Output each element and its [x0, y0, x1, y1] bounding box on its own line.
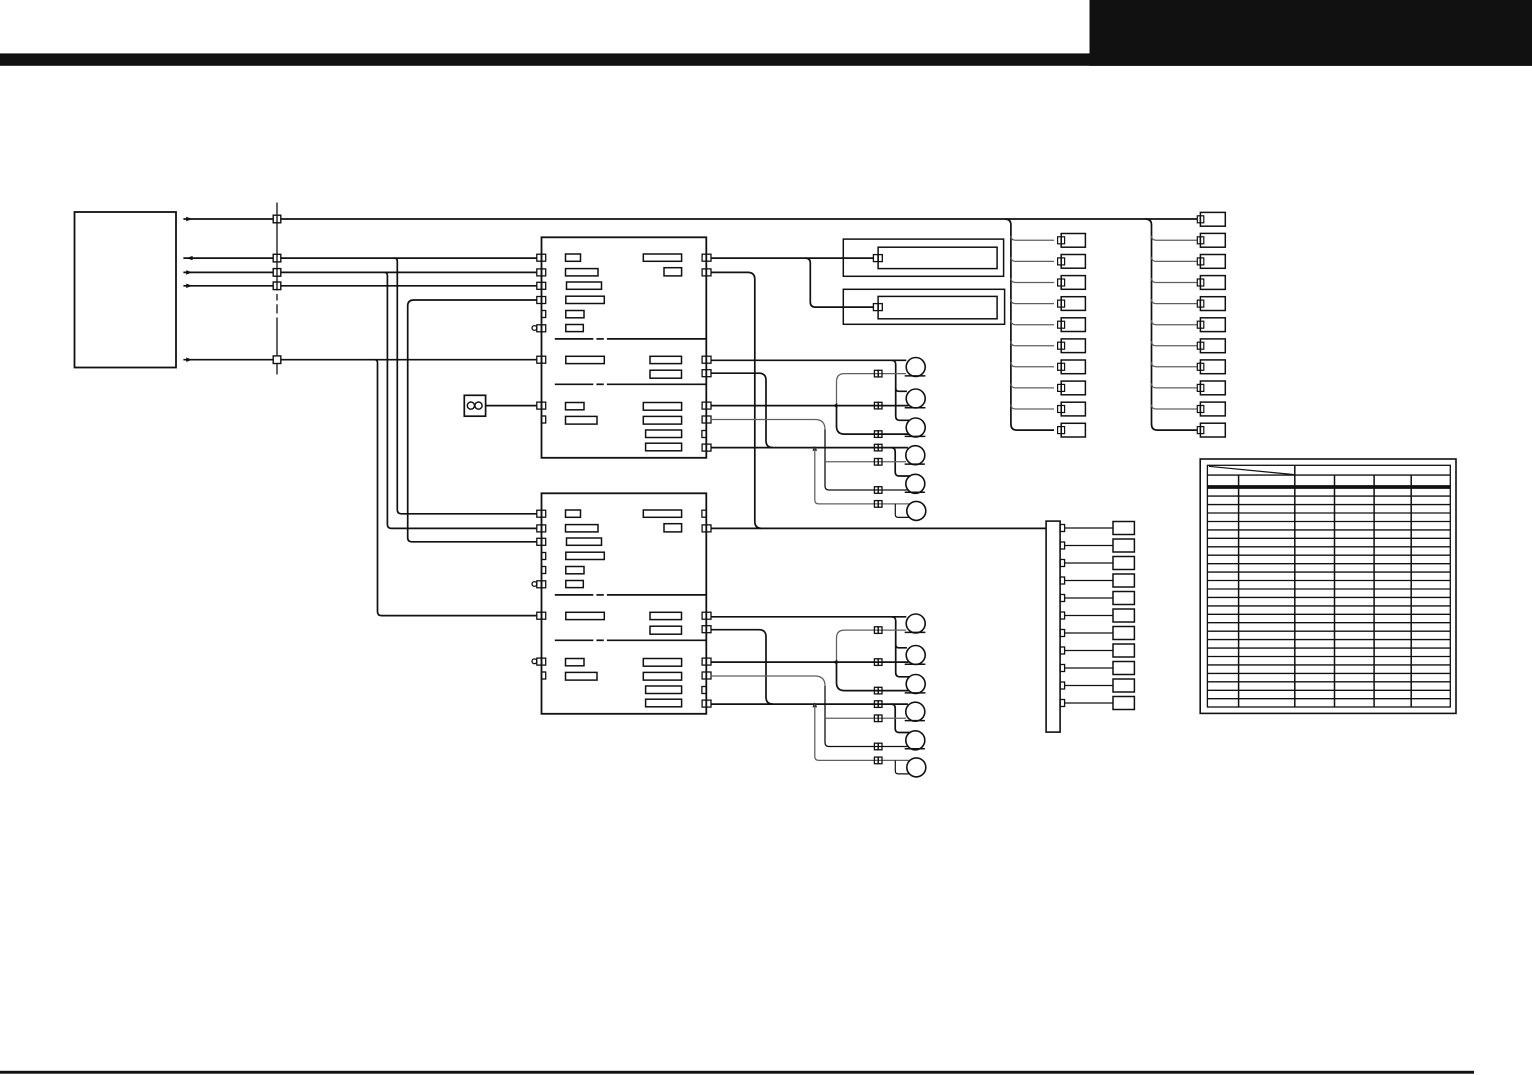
left column connector box 6	[1061, 339, 1085, 353]
CN3 wire 10	[1065, 685, 1113, 687]
left column tap wire 3	[1011, 278, 1054, 283]
return wire lamp4 (gray)	[825, 717, 906, 719]
CN3 pin 11	[1060, 700, 1065, 707]
feed branch to lamp6 (gray)	[815, 704, 910, 760]
lamp L11	[906, 731, 925, 750]
IC602 section divider 1	[555, 594, 594, 596]
junction square J3	[273, 269, 281, 277]
left column connector box 9	[1061, 402, 1085, 416]
junction square J5	[273, 356, 281, 364]
wire V3 (W2 branch to IC2 pin1)	[394, 258, 537, 514]
CN3 pin 8	[1060, 647, 1065, 654]
title block (solid)	[1090, 0, 1532, 66]
CN3 pin 4	[1060, 577, 1065, 584]
table header line 1	[1207, 474, 1450, 476]
lamp L10	[906, 702, 925, 721]
return wire lamp2	[711, 661, 909, 663]
lamp L5	[906, 474, 925, 493]
wire W2	[183, 257, 536, 259]
lamp base bar	[905, 720, 925, 722]
parts table outer frame	[1200, 459, 1456, 713]
CN3 pin 5	[1060, 595, 1065, 602]
feed drop with stubs (lamps 7,8)	[892, 617, 910, 677]
display module DISP2 outer	[843, 289, 1004, 324]
connector plug CN60	[874, 627, 878, 634]
right column tap wire 4	[1152, 299, 1197, 304]
IC602 left pins	[532, 510, 546, 679]
CN3 terminal box 7	[1113, 627, 1134, 640]
CN3 pin 1	[1060, 525, 1065, 532]
wire IC601 pin to main harness	[711, 272, 762, 528]
connector plug CN66	[874, 757, 878, 764]
IC602 section divider 2	[555, 639, 594, 641]
right column tap wire 6	[1152, 341, 1197, 346]
wire W4	[183, 285, 536, 287]
lamp base bar	[905, 463, 925, 465]
arrow W4	[186, 284, 192, 288]
connector plug CN00	[874, 370, 878, 377]
CN3 terminal box 6	[1113, 609, 1134, 622]
right column tap wire 7	[1152, 362, 1197, 367]
left column connector box 2	[1061, 255, 1085, 269]
right column bus vertical	[1146, 219, 1197, 430]
CN3 wire 3	[1065, 562, 1113, 564]
DISP1 pin	[873, 255, 878, 262]
wire W1 (top bus to connector columns)	[183, 218, 1197, 220]
junction tick 2	[812, 703, 817, 708]
CN3 wire 7	[1065, 632, 1113, 634]
lamp base bar	[905, 491, 925, 493]
arrow W1	[186, 217, 192, 221]
connector plug CN06	[874, 501, 878, 508]
lamp base bar	[905, 748, 925, 750]
right column connector box 6	[1200, 318, 1225, 332]
return wire lamp2	[711, 405, 909, 407]
lamp base bar	[905, 692, 926, 694]
connector plug CN61	[874, 659, 878, 666]
right column connector box 2	[1200, 233, 1225, 247]
board-edge vertical (lower solid part)	[276, 318, 278, 356]
CN3 pin 3	[1060, 560, 1065, 567]
left column connector box 4	[1061, 297, 1085, 311]
wire W5	[183, 359, 536, 361]
return wire lamp 7 (gray)	[837, 630, 907, 662]
connector plug CN03	[874, 444, 878, 451]
CN3 wire 6	[1065, 615, 1113, 617]
right column tap wire 2	[1152, 257, 1197, 262]
CN3 pin 9	[1060, 665, 1065, 672]
CN3 pin 6	[1060, 612, 1065, 619]
left column tap wire 1	[1011, 236, 1054, 241]
return wire lamp4-5 from IC pin (gray)	[711, 676, 825, 686]
left column connector box 5	[1061, 318, 1085, 332]
wire IC601 to DISP1	[711, 257, 874, 259]
CN3 wire 5	[1065, 597, 1113, 599]
right column connector box 5	[1200, 297, 1225, 311]
connector plug CN02	[874, 431, 878, 438]
IC602 right pins	[702, 510, 711, 707]
IC601 right pins	[702, 254, 711, 451]
CN3 wire 8	[1065, 650, 1113, 652]
feed branch to lamp6 (gray)	[815, 448, 910, 504]
lamp base bar	[905, 663, 926, 665]
lamp L2	[906, 389, 925, 408]
right column connector box 8	[1200, 360, 1225, 374]
left column bus vertical	[1005, 219, 1054, 430]
CN3 terminal box 4	[1113, 574, 1134, 587]
footer rule	[0, 1071, 1474, 1074]
CN3 pin 7	[1060, 630, 1065, 637]
feed drop with stubs (lamps 1,2)	[892, 360, 910, 420]
IC601 internal label boxes	[566, 254, 682, 451]
feed wire net (lamps 4-6)	[711, 703, 908, 705]
lamp L7	[906, 614, 925, 633]
board-edge vertical (solid part)	[276, 203, 278, 291]
arrow W3	[186, 270, 192, 274]
IC block IC601 outline	[542, 237, 707, 457]
lamp L1	[906, 358, 925, 377]
CN3 pin 2	[1060, 542, 1065, 549]
lamp6 loop	[895, 504, 909, 518]
connector plug CN62	[874, 687, 878, 694]
CN3 pin 10	[1060, 682, 1065, 689]
left column connector box 1	[1061, 234, 1085, 248]
left column connector box 8	[1061, 381, 1085, 395]
right column tap wire 1	[1152, 236, 1197, 241]
table header thick rule	[1207, 487, 1450, 489]
CN3 terminal box 2	[1113, 539, 1134, 552]
junction tick	[833, 403, 838, 408]
IC block IC602 outline	[542, 493, 707, 714]
wire V1 (W5 branch to IC2)	[375, 360, 537, 616]
connector plug CN65	[874, 743, 878, 750]
lamp base bar	[905, 435, 926, 437]
wire branch to DISP2	[805, 258, 873, 307]
return bus vertical + lamp3 return	[837, 406, 909, 435]
left column connector box 3	[1061, 276, 1085, 290]
connector plug CN64	[874, 715, 878, 722]
CN3 terminal box 1	[1113, 522, 1134, 535]
wire IC602 to connector housing CN3	[711, 527, 1046, 529]
lamp L9	[906, 675, 925, 694]
right column connector box 4	[1200, 276, 1225, 290]
return bus vertical + lamp3 return	[837, 662, 909, 691]
wire W3	[183, 271, 536, 273]
display module DISP1 inner	[878, 247, 997, 268]
connector plug CN63	[874, 701, 878, 708]
connector plug CN01	[874, 402, 878, 409]
joining wire from second IC pin	[711, 630, 773, 704]
right column tap wire 9	[1152, 405, 1197, 410]
CN3 terminal box 10	[1113, 679, 1134, 692]
DISP2 pin	[873, 304, 878, 311]
IC601 section divider 1	[555, 338, 594, 340]
lamp L4	[906, 446, 925, 465]
lamp base bar	[905, 407, 926, 409]
display module DISP2 inner	[878, 296, 997, 318]
test-point box TP1 (infinity symbol)	[464, 395, 485, 416]
right column tap wire 8	[1152, 383, 1197, 388]
left column tap wire 6	[1011, 341, 1054, 346]
right column connector box 1	[1200, 212, 1225, 226]
feed drop to lamp5	[891, 704, 910, 732]
display module DISP1 outer	[843, 239, 1003, 276]
lamp L8	[906, 646, 925, 665]
joining wire from second IC pin	[711, 373, 773, 447]
left column tap wire 9	[1011, 405, 1054, 410]
system control unit box	[75, 212, 177, 368]
CN3 terminal box 5	[1113, 592, 1134, 605]
junction square J4	[273, 282, 281, 290]
lamp base bar	[905, 631, 926, 633]
connector plug CN05	[874, 487, 878, 494]
connector plug CN04	[874, 459, 878, 466]
feed drop to lamp5	[891, 448, 910, 476]
CN3 wire 1	[1065, 527, 1113, 529]
return wire lamp 1 (gray)	[837, 374, 907, 406]
CN3 terminal box 3	[1113, 557, 1134, 570]
right column connector box 3	[1200, 255, 1225, 269]
right column tap wire 5	[1152, 320, 1197, 325]
CN3 terminal box 11	[1113, 697, 1134, 710]
right column connector box 7	[1200, 339, 1225, 353]
feed wire net (lamps 4-6)	[711, 447, 908, 449]
lamp L12	[907, 758, 926, 777]
feed wire net F6 from IC pin	[711, 616, 907, 618]
right column connector box 11	[1200, 423, 1225, 437]
CN3 wire 4	[1065, 580, 1113, 582]
left column connector box 7	[1061, 360, 1085, 374]
table header line 2	[1207, 485, 1450, 487]
left column tap wire 2	[1011, 257, 1054, 262]
CN3 wire 9	[1065, 667, 1113, 669]
table body row lines	[1207, 496, 1450, 699]
lamp base bar	[905, 375, 926, 377]
IC601 section divider 2	[555, 383, 594, 385]
wire V4 (IC1 pin4 to IC2 pin3)	[408, 300, 537, 542]
lamp L3	[906, 418, 925, 437]
lamp6 loop	[895, 760, 909, 774]
left column tap wire 7	[1011, 362, 1054, 367]
left column connector box 10	[1061, 423, 1085, 437]
wire V2 (W3 branch to IC2 pin2)	[384, 272, 536, 528]
junction square J2	[273, 254, 281, 262]
return wire lamp4-5 from IC pin (gray)	[711, 420, 825, 430]
left column tap wire 5	[1011, 320, 1054, 325]
CN3 wire 2	[1065, 545, 1113, 547]
junction square J1	[273, 215, 281, 223]
IC601 left pins	[532, 254, 546, 423]
junction tick	[833, 660, 838, 665]
left column tap wire 4	[1011, 299, 1054, 304]
arrow W5	[186, 358, 192, 362]
wire TP1 to IC601	[486, 405, 537, 407]
junction tick 2	[812, 446, 817, 451]
parts table inner frame	[1207, 465, 1450, 707]
left column tap wire 8	[1011, 383, 1054, 388]
table column lines	[1239, 465, 1412, 707]
connector housing CN3 body	[1046, 521, 1060, 732]
arrow W2	[186, 256, 192, 260]
lamp L6	[907, 501, 926, 520]
CN3 terminal box 8	[1113, 644, 1134, 657]
feed wire net F0 from IC pin	[711, 359, 907, 361]
CN3 wire 11	[1065, 702, 1113, 704]
right column tap wire 3	[1152, 278, 1197, 283]
right column connector box 10	[1200, 402, 1225, 416]
table header diagonal	[1209, 466, 1294, 474]
IC602 internal label boxes	[566, 510, 682, 707]
return wire lamp4 (gray)	[825, 461, 906, 463]
header rule	[0, 53, 1532, 65]
CN3 terminal box 9	[1113, 662, 1134, 675]
board-edge vertical (dashed part)	[276, 294, 278, 301]
right column connector box 9	[1200, 381, 1225, 395]
